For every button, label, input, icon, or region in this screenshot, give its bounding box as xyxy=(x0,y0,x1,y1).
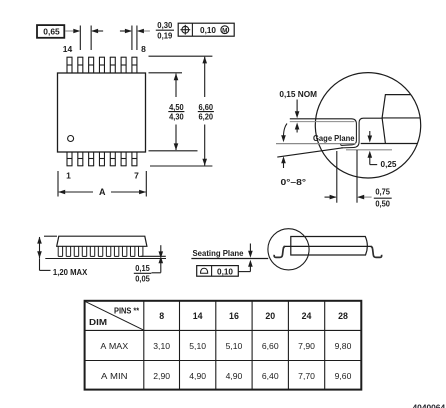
pitch extension line left xyxy=(79,26,81,51)
svg-text:M: M xyxy=(222,27,227,34)
flatness leader xyxy=(238,271,250,273)
true position symbol xyxy=(180,25,190,35)
svg-text:9,80: 9,80 xyxy=(335,341,352,351)
seating plane arrows xyxy=(248,244,253,272)
dim 0,15 arrow up xyxy=(295,123,300,133)
profile lead frame line xyxy=(284,245,372,247)
dim 0,65 box xyxy=(37,25,64,38)
angle 0-8 text xyxy=(281,177,307,187)
table A MIN values xyxy=(153,371,351,381)
leader from 0,65 box xyxy=(65,29,80,34)
dim 1,20 MAX line xyxy=(37,237,50,271)
table row label A MIN xyxy=(101,371,128,381)
standoff extension line xyxy=(141,255,166,257)
dim 0,15 NOM text xyxy=(279,89,317,99)
side view leads xyxy=(58,246,143,256)
dim 0,15/0,05 leader xyxy=(152,272,161,274)
table pin-count headers xyxy=(159,311,348,321)
body height extension top xyxy=(149,72,183,74)
svg-text:7,90: 7,90 xyxy=(298,341,315,351)
svg-text:Seating Plane: Seating Plane xyxy=(193,248,244,258)
dim 6,60/6,20 text xyxy=(198,102,214,122)
svg-text:0,30: 0,30 xyxy=(157,20,172,30)
angle dim arrow down xyxy=(281,124,287,143)
svg-text:5,10: 5,10 xyxy=(189,341,206,351)
dim A line xyxy=(58,190,146,195)
tolerance 0,10 text xyxy=(200,25,216,35)
svg-text:Gage Plane: Gage Plane xyxy=(313,133,355,143)
gage plane line xyxy=(276,143,356,145)
svg-text:4,30: 4,30 xyxy=(169,112,184,122)
dim 4,50/4,30 line xyxy=(174,73,179,150)
svg-text:A MIN: A MIN xyxy=(101,371,128,381)
svg-text:24: 24 xyxy=(302,311,312,321)
seating plane text xyxy=(193,248,244,258)
pin 1 index circle xyxy=(68,136,74,142)
dim 0,25 text xyxy=(381,159,397,169)
svg-text:0,15: 0,15 xyxy=(135,263,150,273)
dim 0,15/0,05 arrows xyxy=(159,245,164,272)
svg-text:6,60: 6,60 xyxy=(262,341,279,351)
svg-text:A: A xyxy=(99,187,106,197)
svg-text:3,10: 3,10 xyxy=(153,341,170,351)
lead width arrow left xyxy=(120,29,132,34)
pins/dim table grid xyxy=(85,301,362,390)
detail view circle xyxy=(315,73,420,178)
svg-text:6,40: 6,40 xyxy=(262,371,279,381)
dim 0,75 extension right xyxy=(356,150,358,203)
svg-text:2,90: 2,90 xyxy=(153,371,170,381)
body edge in detail xyxy=(361,95,420,144)
profile right lead xyxy=(371,247,382,258)
overall height extension top xyxy=(149,55,213,57)
svg-text:5,10: 5,10 xyxy=(226,341,243,351)
flatness frame xyxy=(197,266,239,277)
dim 4,50/4,30 text xyxy=(168,102,184,122)
angled lead bottom line (0-8 deg) xyxy=(277,148,343,157)
svg-text:PINS **: PINS ** xyxy=(114,306,140,315)
svg-text:4,50: 4,50 xyxy=(169,102,184,112)
dim A text xyxy=(99,187,106,197)
svg-text:0,65: 0,65 xyxy=(43,27,60,37)
dim 0,75 extension left xyxy=(336,151,338,203)
svg-text:0,05: 0,05 xyxy=(135,274,150,284)
svg-text:8: 8 xyxy=(159,311,164,321)
dim 0,75/0,50 text xyxy=(374,187,392,209)
svg-text:0,10: 0,10 xyxy=(200,25,216,35)
dim 0,75 arrow right xyxy=(357,195,371,200)
profile body xyxy=(291,237,368,256)
seating line below foot xyxy=(346,149,392,151)
svg-text:14: 14 xyxy=(193,311,203,321)
top pin row (pins 14-8) xyxy=(67,57,138,73)
svg-text:0,15 NOM: 0,15 NOM xyxy=(279,89,317,99)
svg-text:8: 8 xyxy=(141,44,146,54)
table DIM label xyxy=(89,318,107,327)
svg-text:A MAX: A MAX xyxy=(100,341,128,351)
profile left lead xyxy=(274,247,285,258)
angle dim arrow up xyxy=(281,156,286,168)
gage plane text xyxy=(313,133,355,143)
seating plane underline xyxy=(191,258,268,260)
package body (top view) xyxy=(58,73,146,152)
svg-text:DIM: DIM xyxy=(89,318,107,327)
pin label 8 xyxy=(141,44,146,54)
material condition M xyxy=(221,26,229,35)
overall height extension bottom xyxy=(150,165,212,167)
svg-text:1,20 MAX: 1,20 MAX xyxy=(53,267,88,277)
svg-text:7: 7 xyxy=(134,171,139,181)
lead profile in detail xyxy=(290,118,383,148)
lead width extension line left xyxy=(131,26,133,51)
dim 0,15 arrow down xyxy=(295,100,300,119)
dim 1,20 MAX extension xyxy=(44,235,57,237)
dim 0,25 arrow down xyxy=(368,131,373,143)
dim 1,20 MAX text xyxy=(53,267,88,277)
dim 0,30 over 0,19 xyxy=(156,20,174,41)
pitch extension line right xyxy=(90,26,92,51)
body height extension bottom xyxy=(149,150,198,152)
table A MAX values xyxy=(153,341,351,351)
dim 0,15/0,05 text xyxy=(134,263,152,284)
svg-text:20: 20 xyxy=(265,311,275,321)
bottom pin row (pins 1-7) xyxy=(67,152,138,166)
svg-text:0,50: 0,50 xyxy=(375,198,390,208)
dim A extension right xyxy=(145,171,147,197)
svg-text:14: 14 xyxy=(63,44,73,54)
table header diagonal xyxy=(85,302,143,330)
svg-text:0,10: 0,10 xyxy=(217,266,233,276)
flatness 0,10 text xyxy=(217,266,233,276)
pin label 14 xyxy=(63,44,73,54)
detail reference circle xyxy=(268,229,309,270)
svg-text:0,25: 0,25 xyxy=(381,159,397,169)
table row label A MAX xyxy=(100,341,128,351)
dim A extension left xyxy=(57,171,59,197)
svg-text:9,60: 9,60 xyxy=(335,371,352,381)
svg-text:7,70: 7,70 xyxy=(298,371,315,381)
svg-text:16: 16 xyxy=(229,311,239,321)
svg-text:0°–8°: 0°–8° xyxy=(281,177,307,187)
dim 6,60/6,20 line xyxy=(202,56,207,165)
side view body xyxy=(57,236,147,246)
table PINS ** label xyxy=(114,306,140,315)
pin label 7 xyxy=(134,171,139,181)
flatness symbol xyxy=(201,268,208,273)
svg-text:4,90: 4,90 xyxy=(226,371,243,381)
feature control frame box xyxy=(178,23,234,36)
svg-text:6,60: 6,60 xyxy=(199,102,214,112)
svg-text:6,20: 6,20 xyxy=(199,112,214,122)
dim 0,25 arrow up+leader xyxy=(368,151,378,165)
lead width extension line right xyxy=(136,26,138,51)
svg-text:4,90: 4,90 xyxy=(189,371,206,381)
svg-text:4040064: 4040064 xyxy=(413,403,446,408)
dim 0,75 arrow left xyxy=(325,195,337,200)
lead width arrow right xyxy=(137,29,150,34)
document number 4040064 xyxy=(413,403,446,408)
seating plane line left view xyxy=(45,258,166,260)
svg-text:0,75: 0,75 xyxy=(375,187,390,197)
svg-text:0,19: 0,19 xyxy=(157,31,172,41)
pitch arrow right side xyxy=(91,29,103,34)
svg-text:28: 28 xyxy=(338,311,348,321)
pin label 1 xyxy=(66,171,71,181)
svg-text:1: 1 xyxy=(66,171,71,181)
dim 0,65 text xyxy=(43,27,60,37)
